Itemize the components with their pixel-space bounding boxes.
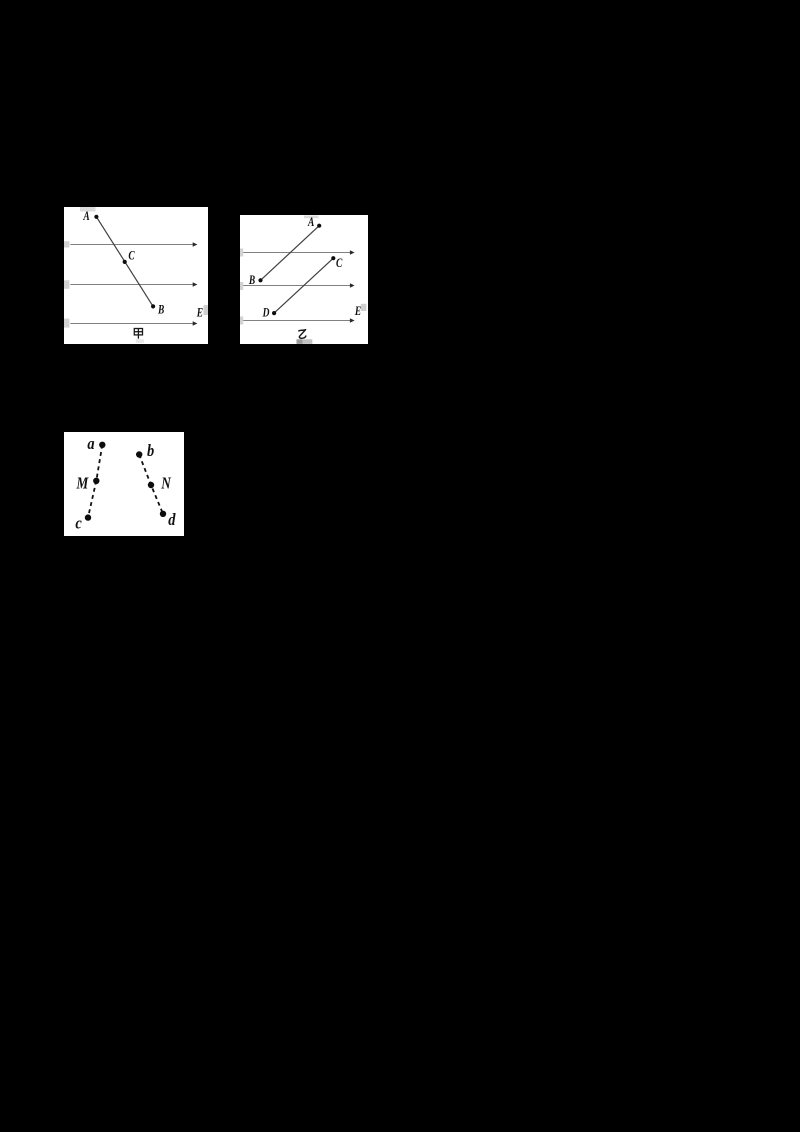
glyph 甲 drawn as strokes xyxy=(134,329,142,339)
scan artifact squares xyxy=(304,216,318,219)
svg-text:a: a xyxy=(87,435,94,453)
svg-text:B: B xyxy=(157,303,165,317)
line 3 with arrow xyxy=(243,318,354,322)
scan artifact squares xyxy=(80,207,96,212)
point B xyxy=(258,278,262,282)
svg-text:C: C xyxy=(336,257,343,271)
point C xyxy=(331,256,335,260)
point N xyxy=(148,482,154,488)
svg-text:D: D xyxy=(262,306,270,320)
line 2 with arrow xyxy=(70,282,197,286)
point A xyxy=(94,215,98,219)
svg-text:C: C xyxy=(128,249,135,263)
point D xyxy=(272,311,276,315)
segment D-C xyxy=(274,258,333,313)
svg-text:N: N xyxy=(160,474,171,493)
point B xyxy=(151,304,155,308)
point d xyxy=(160,511,166,517)
svg-text:d: d xyxy=(168,511,176,529)
svg-text:A: A xyxy=(82,210,90,224)
dashed line b-N-d xyxy=(139,455,163,514)
svg-text:b: b xyxy=(147,442,154,460)
line 2 with arrow xyxy=(243,283,354,287)
transversal A-B xyxy=(96,217,153,307)
point C xyxy=(123,260,127,264)
svg-text:A: A xyxy=(307,216,315,230)
point M xyxy=(93,478,99,484)
svg-text:E: E xyxy=(354,305,361,319)
line 1 with arrow xyxy=(243,250,354,254)
point c xyxy=(85,514,91,520)
svg-text:B: B xyxy=(248,274,256,288)
svg-text:E: E xyxy=(196,306,203,320)
panel 乙: three parallel lines with segments BA and DC xyxy=(240,215,368,344)
segment B-A xyxy=(261,226,320,281)
panel 甲: three parallel lines cut by transversal AB xyxy=(64,207,208,344)
point b xyxy=(136,451,142,457)
svg-text:c: c xyxy=(75,514,81,532)
point A xyxy=(317,224,321,228)
dashed line a-M-c xyxy=(88,445,102,518)
panel with dashed segments a-c and b-d xyxy=(64,432,184,536)
point a xyxy=(99,442,105,448)
svg-text:M: M xyxy=(76,474,89,493)
glyph 乙 drawn as strokes xyxy=(299,330,306,339)
line 1 with arrow xyxy=(70,242,197,246)
line 3 with arrow xyxy=(70,321,197,325)
